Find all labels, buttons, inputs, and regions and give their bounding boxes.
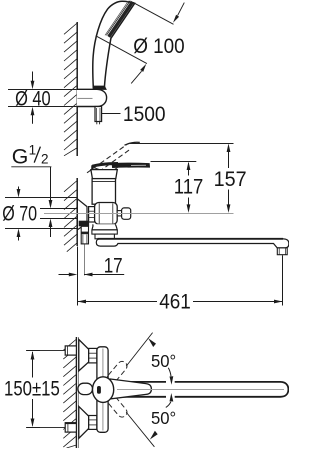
raised lever tip (solid): [125, 142, 140, 145]
svg-text:150±15: 150±15: [4, 376, 60, 400]
label G 1/2 (thread): [12, 143, 49, 169]
wall escutcheon (side): [77, 199, 87, 230]
shower outlet block (dark): [79, 221, 89, 227]
aerator: [277, 248, 287, 255]
svg-text:2: 2: [41, 151, 49, 166]
svg-text:G: G: [12, 144, 29, 168]
spout (side view): [96, 239, 288, 248]
faucet body tube (front): [97, 347, 108, 433]
hand shower head and handle: [93, 1, 135, 88]
knob axis line (gray): [44, 213, 234, 215]
dimension 150±15: [26, 351, 40, 428]
supply stub (bottom): [65, 423, 76, 432]
spout axis line (gray): [117, 389, 284, 391]
dimension Ø70 extension lines: [5, 197, 77, 199]
lever slot (dark): [97, 386, 101, 394]
svg-text:117: 117: [174, 175, 204, 199]
dimension Ø40 arrows: [31, 72, 35, 124]
lever left cap (front): [78, 383, 93, 394]
faucet body upper: [92, 179, 115, 205]
lever bar (front): [110, 379, 151, 399]
dimension Ø70 arrows: [17, 187, 21, 241]
union nut: [89, 207, 95, 222]
dimension 117: [187, 162, 191, 213]
extension line from raised lever (157 top): [130, 143, 234, 145]
shower bracket: [77, 89, 107, 106]
extension line from lever tip (117 top): [151, 161, 197, 163]
supply stub (top): [65, 346, 76, 355]
dimension 461: [78, 255, 283, 305]
50° arc arrowhead at upper line: [148, 338, 156, 347]
G 1/2 leader vertical with arrows: [49, 167, 53, 237]
svg-text:1: 1: [29, 143, 37, 158]
escutcheon cone (bottom): [79, 406, 89, 438]
base collar: [92, 230, 117, 234]
outlet knob phantom (dashed, upper 50°): [105, 359, 129, 385]
svg-text:Ø 100: Ø 100: [133, 34, 185, 58]
union nut (bottom): [89, 416, 97, 430]
shower hose connector: [95, 107, 102, 125]
wall (top section, shower holder): [64, 22, 77, 156]
escutcheon cone (top): [79, 340, 89, 371]
check valve housing: [95, 203, 118, 225]
G 1/2 leader underline: [11, 166, 51, 168]
wall (bottom section, front view): [63, 337, 78, 448]
faucet lever (side view): [92, 163, 149, 172]
svg-text:50°: 50°: [151, 351, 176, 371]
svg-text:1500: 1500: [123, 102, 166, 126]
G 1/2 pipe in wall: [40, 209, 77, 219]
union nut (top): [89, 348, 97, 363]
50° extension line (upper): [126, 333, 152, 367]
dimension Ø100 extension line (face bottom): [96, 36, 147, 64]
dimension Ø100 leader and arrows: [131, 3, 184, 84]
diverter knob: [117, 208, 131, 219]
svg-text:Ø 70: Ø 70: [2, 202, 37, 226]
dimension Ø100 extension line (face top): [133, 2, 174, 24]
svg-text:Ø 40: Ø 40: [15, 87, 51, 111]
svg-text:17: 17: [104, 254, 123, 278]
lever boss circle: [93, 377, 114, 403]
supply stub axis (bottom, gray): [26, 427, 65, 429]
50° arc arrowhead at lower line: [150, 431, 158, 440]
shower face plate (hatched dark): [107, 1, 134, 38]
faucet cartridge dome: [91, 170, 117, 179]
spout (front view): [114, 382, 288, 397]
svg-text:461: 461: [159, 289, 191, 313]
dimension 157: [227, 144, 231, 213]
leader line to 1500: [102, 113, 121, 115]
supply stub axis (top, gray): [26, 350, 65, 352]
dimension 17: [59, 245, 125, 306]
shower hose outlet: [81, 226, 88, 244]
hose nut (dark) under shower handle: [93, 86, 107, 90]
50° angle arrows at spout: [166, 368, 175, 408]
raised lever (dashed phantom): [87, 144, 131, 176]
svg-text:157: 157: [214, 167, 247, 191]
bracket Ø40 extension lines: [8, 89, 77, 91]
faucet body lower neck: [92, 224, 117, 230]
50° extension line (lower): [126, 412, 154, 447]
wall (middle section): [64, 178, 77, 252]
outlet knob phantom (dashed, lower 50°): [105, 393, 129, 419]
svg-text:50°: 50°: [151, 408, 176, 428]
